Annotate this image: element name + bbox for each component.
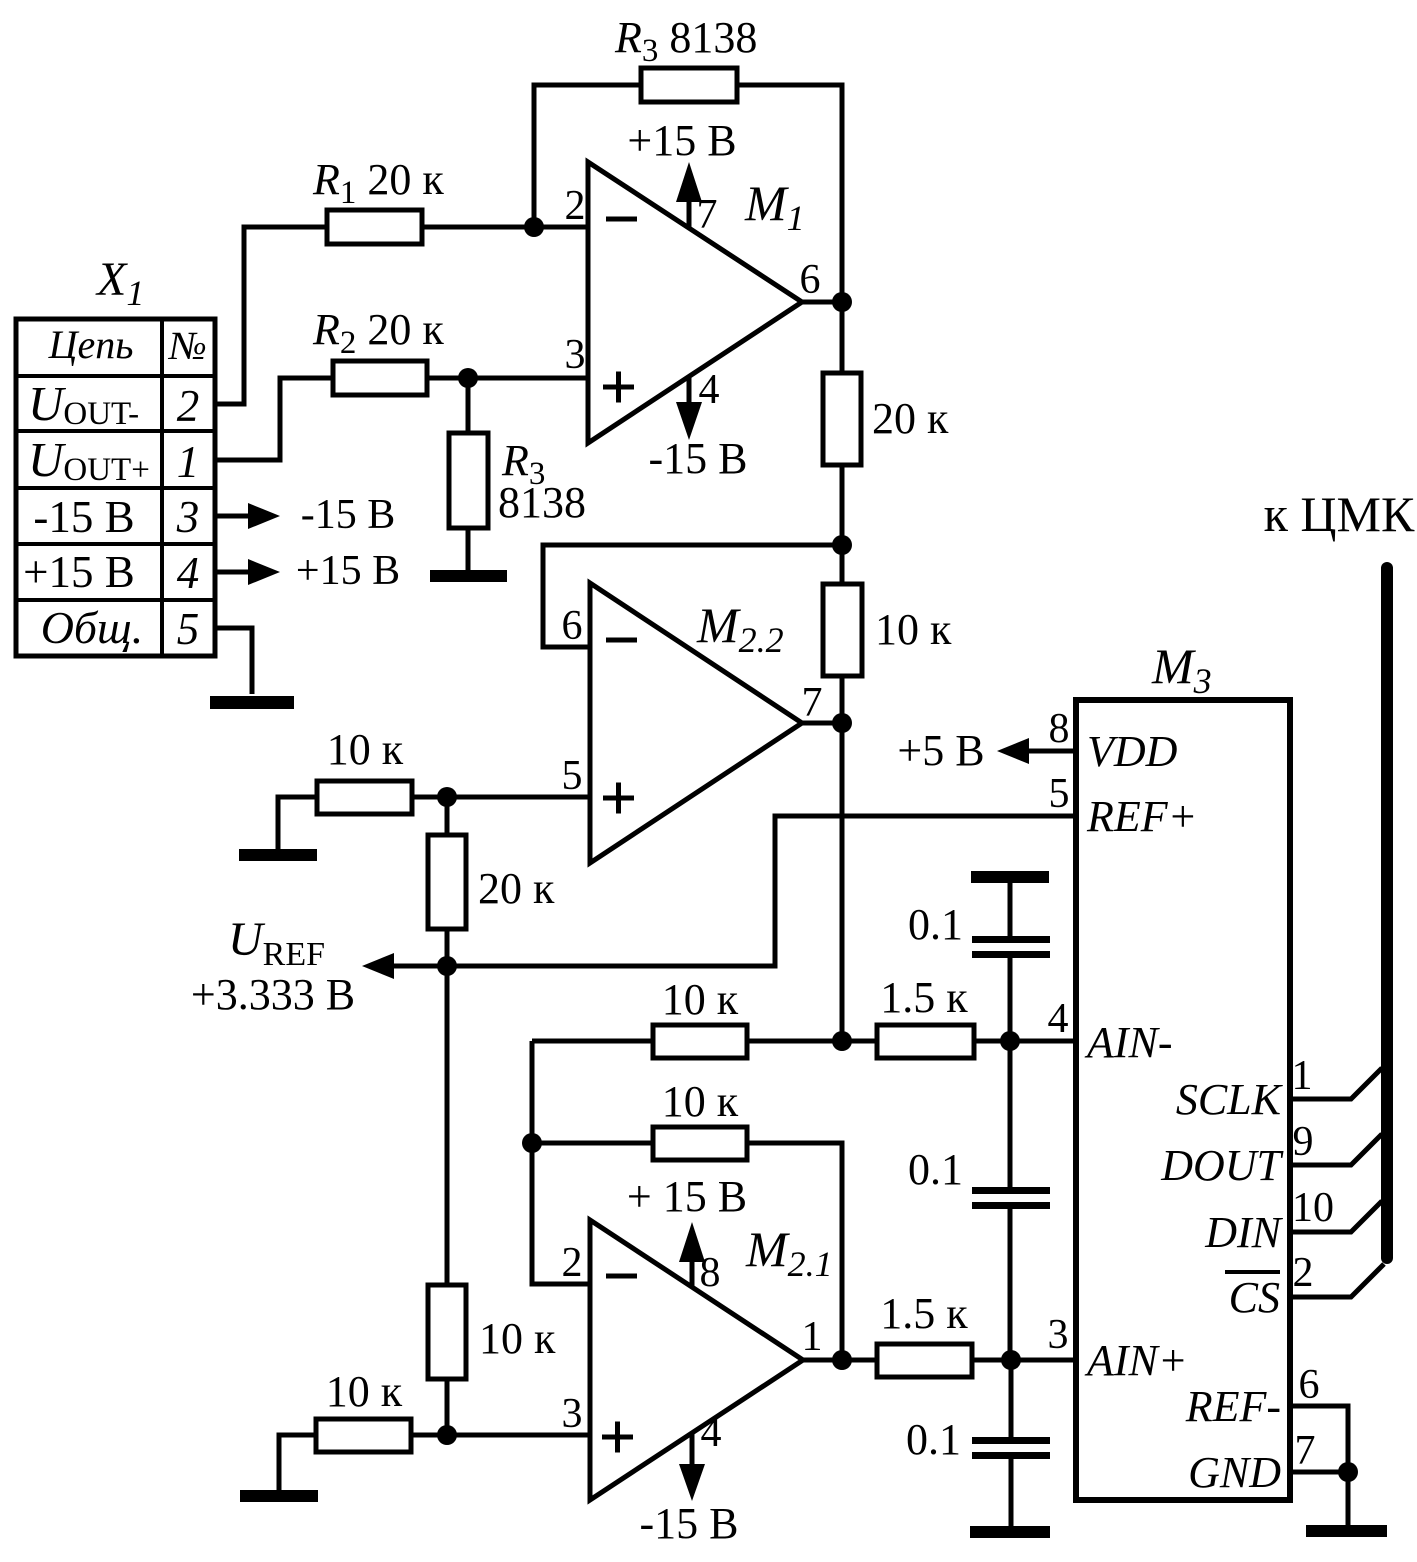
pin number 6 of M2.2 <box>562 603 583 649</box>
pin number 3 of M1 <box>565 332 586 378</box>
X1 row UOUT+ <box>28 432 150 488</box>
wire 10k to ground M2.2 <box>278 797 317 849</box>
pin number 4 AIN- <box>1048 996 1069 1042</box>
label -15 В at M2.1 <box>640 1499 739 1548</box>
svg-text:0.1: 0.1 <box>906 1415 961 1464</box>
svg-text:+5 В: +5 В <box>897 726 984 775</box>
X1 pin 2 number <box>177 381 200 431</box>
node AIN+ capacitor <box>1001 1350 1021 1370</box>
capacitor C3 0.1 <box>972 1437 1050 1459</box>
arrow +15V from X1 pin 4 <box>215 559 280 585</box>
label к ЦМК <box>1264 486 1415 542</box>
pin number 5 REF+ <box>1049 771 1070 817</box>
resistor 20k output divider <box>823 373 861 465</box>
svg-text:VDD: VDD <box>1087 727 1178 776</box>
svg-text:8: 8 <box>700 1250 721 1296</box>
label 1.5 к AIN- <box>880 973 968 1022</box>
wire M2.1 output pin 1 <box>803 1358 842 1363</box>
svg-text:7: 7 <box>1295 1428 1316 1474</box>
wire 10k fb1 to AIN- node <box>747 1039 842 1044</box>
label -15 В at X1 <box>301 492 396 538</box>
svg-text:3: 3 <box>1048 1312 1069 1358</box>
wire AIN+ node to C3 <box>1009 1360 1014 1437</box>
bus to CMK <box>1381 568 1393 1258</box>
wire Uref to REF+ pin <box>447 816 1076 966</box>
op-amp M2.1 <box>590 1220 803 1500</box>
wire R1 to M1 pin 2 <box>422 225 588 230</box>
X1 header № <box>167 323 207 368</box>
wire C1 to AIN- node <box>1008 958 1013 1041</box>
resistor 1.5k AIN+ <box>842 1344 1076 1377</box>
node AIN- <box>832 1031 852 1051</box>
svg-text:5: 5 <box>177 604 200 654</box>
pin CS label with overline <box>1225 1272 1280 1322</box>
label 10 к M2.2 feedback <box>875 605 952 654</box>
label 1.5 к AIN+ <box>880 1289 968 1338</box>
svg-text:10 к: 10 к <box>875 605 952 654</box>
svg-text:2: 2 <box>1293 1250 1314 1296</box>
label +3.333 В <box>191 970 355 1019</box>
svg-text:20 к: 20 к <box>872 394 949 443</box>
X1 row UOUT- <box>28 376 139 432</box>
wire DOUT to bus <box>1290 1134 1382 1165</box>
svg-text:1: 1 <box>802 1314 823 1360</box>
svg-text:+15 В: +15 В <box>23 547 135 597</box>
label +15 В at X1 <box>296 548 400 594</box>
node M2.1 +input junction <box>437 1425 457 1445</box>
node M2.1 output <box>832 1350 852 1370</box>
pin number 2 CS <box>1293 1250 1314 1296</box>
wire GND pin <box>1290 1470 1348 1475</box>
svg-text:0.1: 0.1 <box>908 1145 963 1194</box>
op-amp M1 <box>588 162 802 443</box>
wire M2.2 output pin 7 <box>802 721 842 726</box>
resistor 10k M2.1 +input <box>316 1419 411 1452</box>
wire junction to M2.1 pin 3 <box>412 1433 590 1438</box>
X1 row +15 B <box>23 547 135 597</box>
wire fb junction to 10k fb2 <box>532 1141 653 1146</box>
IC M3 body <box>1076 700 1290 1500</box>
svg-text:1: 1 <box>177 437 200 487</box>
wire AIN- node to C2 <box>1008 1041 1013 1187</box>
svg-text:-15 В: -15 В <box>301 492 396 538</box>
svg-text:к ЦМК: к ЦМК <box>1264 486 1415 542</box>
label M1 <box>744 175 805 238</box>
pin number 4 of M1 <box>699 367 720 413</box>
pin number 7 of M1 <box>697 192 718 238</box>
svg-text:-15 В: -15 В <box>33 492 134 542</box>
wire R2 to M1 pin 3 <box>427 376 588 381</box>
svg-text:R2 20 к: R2 20 к <box>312 305 444 361</box>
svg-text:20 к: 20 к <box>478 864 555 913</box>
pin number 8 of M2.1 <box>700 1250 721 1296</box>
pin DIN label <box>1204 1208 1283 1257</box>
pin DOUT label <box>1160 1141 1284 1190</box>
pin number 3 AIN+ <box>1048 1312 1069 1358</box>
pin number 4 of M2.1 <box>701 1410 722 1456</box>
pin SCLK label <box>1176 1075 1284 1124</box>
pin number 1 SCLK <box>1292 1053 1313 1099</box>
svg-text:DOUT: DOUT <box>1160 1141 1284 1190</box>
wire SCLK to bus <box>1290 1068 1382 1099</box>
ground top of capacitor chain <box>971 871 1049 936</box>
svg-text:8138: 8138 <box>498 478 586 527</box>
resistor R2 <box>333 361 427 395</box>
svg-text:1.5 к: 1.5 к <box>880 973 968 1022</box>
svg-text:10 к: 10 к <box>327 725 404 774</box>
ground M2.1 +input <box>240 1490 318 1502</box>
pin number 9 DOUT <box>1293 1119 1314 1165</box>
resistor 10k feedback upper <box>653 1025 747 1058</box>
power +5V arrow from VDD <box>997 738 1076 764</box>
label 10 к M2.1 +input <box>326 1367 403 1416</box>
svg-text:R3 8138: R3 8138 <box>614 13 757 69</box>
label +15 В at M1 <box>627 116 736 165</box>
svg-text:8: 8 <box>1049 706 1070 752</box>
svg-text:-15 В: -15 В <box>640 1499 739 1548</box>
svg-text:CS: CS <box>1229 1273 1280 1322</box>
svg-text:Цепь: Цепь <box>48 322 134 367</box>
resistor 1.5k AIN- <box>842 1025 1076 1058</box>
label 10 к feedback lower <box>662 1077 739 1126</box>
pin number 6 of M1 <box>800 257 821 303</box>
svg-text:10 к: 10 к <box>326 1367 403 1416</box>
resistor 20k Uref divider <box>428 797 466 966</box>
svg-text:10: 10 <box>1292 1185 1334 1231</box>
svg-text:4: 4 <box>699 367 720 413</box>
wire M2.2 output down to AIN- node <box>840 723 845 1041</box>
pin number 2 of M2.1 <box>562 1240 583 1286</box>
power +15V arrow M2.1 pin 8 <box>679 1222 705 1287</box>
label -15 В at M1 <box>649 434 748 483</box>
connector X1 title <box>95 253 144 313</box>
label R3 8138 <box>614 13 757 69</box>
wire 10k fb2 to M2.1 output <box>747 1143 842 1360</box>
svg-text:AIN-: AIN- <box>1084 1018 1173 1067</box>
svg-text:№: № <box>167 323 207 368</box>
wire junction to R3 shunt <box>466 378 471 433</box>
label R2 20 к <box>312 305 444 361</box>
pin number 10 DIN <box>1292 1185 1334 1231</box>
X1 row -15 B <box>33 492 134 542</box>
wire AIN- node to 10k fb1 <box>532 1039 653 1044</box>
pin number 5 of M2.2 <box>562 753 583 799</box>
capacitor C2 0.1 <box>972 1187 1050 1209</box>
svg-text:5: 5 <box>562 753 583 799</box>
svg-text:3: 3 <box>176 492 200 542</box>
node M1 noninverting input junction <box>458 368 478 388</box>
resistor 10k feedback lower <box>653 1127 747 1160</box>
label R3 8138 shunt <box>498 436 586 527</box>
wire R3 shunt to ground <box>466 528 471 570</box>
label 10 к vertical <box>479 1314 556 1363</box>
power -15V arrow M1 pin 4 <box>676 376 702 440</box>
svg-text:4: 4 <box>177 548 200 598</box>
svg-text:6: 6 <box>1299 1362 1320 1408</box>
svg-text:AIN+: AIN+ <box>1084 1336 1188 1385</box>
wire C3 to ground <box>1009 1459 1014 1526</box>
pin number 3 of M2.1 <box>562 1391 583 1437</box>
label C2 0.1 <box>908 1145 963 1194</box>
pin REF- label <box>1185 1382 1281 1431</box>
node M1 inverting input junction <box>524 217 544 237</box>
node REF- GND junction <box>1338 1462 1358 1482</box>
pin GND label <box>1188 1448 1281 1497</box>
wire DIN to bus <box>1290 1201 1382 1232</box>
ground X1 <box>210 696 294 709</box>
svg-text:+15 В: +15 В <box>627 116 736 165</box>
wire junction to R3 feedback <box>534 85 641 227</box>
wire M2.2 feedback loop <box>543 545 842 647</box>
op-amp M2.2 <box>590 583 802 863</box>
ground bottom of capacitor chain <box>970 1526 1050 1538</box>
svg-text:SCLK: SCLK <box>1176 1075 1284 1124</box>
svg-text:1: 1 <box>1292 1053 1313 1099</box>
node M2.2 feedback <box>832 535 852 555</box>
svg-text:6: 6 <box>800 257 821 303</box>
svg-text:7: 7 <box>697 192 718 238</box>
svg-text:Общ.: Общ. <box>41 602 144 653</box>
pin number 7 GND <box>1295 1428 1316 1474</box>
svg-text:2: 2 <box>565 183 586 229</box>
wire REF- to GND node <box>1290 1406 1348 1472</box>
pin number 7 of M2.2 <box>802 680 823 726</box>
X1 row Общ. <box>41 602 144 653</box>
resistor R3 shunt <box>449 433 488 528</box>
capacitor C1 0.1 <box>972 936 1050 958</box>
wire X1 pin 1 to R2 <box>215 378 333 460</box>
node AIN- capacitor <box>1000 1031 1020 1051</box>
wire X1 pin 5 to ground <box>215 628 252 694</box>
svg-text:4: 4 <box>701 1410 722 1456</box>
label M2.2 <box>696 597 784 660</box>
resistor 10k to M2.2 +input <box>317 781 412 814</box>
pin number 6 REF- <box>1299 1362 1320 1408</box>
ground M2.2 +input <box>239 849 317 861</box>
svg-text:3: 3 <box>565 332 586 378</box>
wire R3 feedback to M1 output <box>737 85 842 302</box>
node M2.2 +input junction <box>437 787 457 807</box>
label C3 0.1 <box>906 1415 961 1464</box>
label 20 к output divider <box>872 394 949 443</box>
wire M1 output to 20k <box>840 302 845 373</box>
pin number 8 VDD <box>1049 706 1070 752</box>
arrow Uref output <box>362 953 447 979</box>
svg-text:3: 3 <box>562 1391 583 1437</box>
arrow -15V from X1 pin 3 <box>215 503 280 529</box>
X1 pin 5 number <box>177 604 200 654</box>
label C1 0.1 <box>908 900 963 949</box>
X1 header Цепь <box>48 322 134 367</box>
label +5 В <box>897 726 984 775</box>
X1 pin 3 number <box>176 492 200 542</box>
power -15V arrow M2.1 pin 4 <box>679 1433 705 1501</box>
ground M3 <box>1306 1525 1387 1537</box>
label UREF <box>228 913 325 973</box>
node Uref <box>437 956 457 976</box>
node M1 output <box>832 292 852 312</box>
wire C2 to AIN+ node <box>1008 1209 1013 1360</box>
svg-text:+ 15 В: + 15 В <box>627 1172 747 1221</box>
wire X1 pin 2 to R1 <box>215 227 327 404</box>
pin number 2 of M1 <box>565 183 586 229</box>
svg-text:9: 9 <box>1293 1119 1314 1165</box>
ground R3 shunt <box>430 570 507 582</box>
svg-text:10 к: 10 к <box>662 1077 739 1126</box>
label 20 к Uref divider <box>478 864 555 913</box>
X1 pin 4 number <box>177 548 200 598</box>
svg-text:-15 В: -15 В <box>649 434 748 483</box>
pin REF+ label <box>1086 792 1197 841</box>
wire Uref node down to 10k <box>445 966 450 1285</box>
label 10 к feedback upper <box>662 975 739 1024</box>
label 10 к M2.2 +input <box>327 725 404 774</box>
svg-text:GND: GND <box>1188 1448 1281 1497</box>
pin VDD label <box>1087 727 1178 776</box>
wire 20k to M2.2 feedback node <box>840 465 845 545</box>
svg-text:7: 7 <box>802 680 823 726</box>
wire M2.1 pin 2 feedback riser <box>532 1041 590 1284</box>
connector X1 table frame <box>16 319 215 656</box>
label + 15 В at M2.1 <box>627 1172 747 1221</box>
node M2.2 output <box>832 713 852 733</box>
svg-text:2: 2 <box>562 1240 583 1286</box>
svg-text:R1 20 к: R1 20 к <box>312 155 444 211</box>
svg-text:5: 5 <box>1049 771 1070 817</box>
X1 pin 1 number <box>177 437 200 487</box>
svg-text:1.5 к: 1.5 к <box>880 1289 968 1338</box>
resistor R1 <box>327 210 422 244</box>
svg-text:2: 2 <box>177 381 200 431</box>
svg-text:10 к: 10 к <box>662 975 739 1024</box>
svg-text:0.1: 0.1 <box>908 900 963 949</box>
label R1 20 к <box>312 155 444 211</box>
svg-text:DIN: DIN <box>1204 1208 1283 1257</box>
label M2.1 <box>745 1221 833 1284</box>
resistor 10k vertical to M2.1 <box>428 1285 466 1435</box>
power +15V arrow M1 pin 7 <box>676 162 702 228</box>
wire GND node to ground <box>1346 1472 1351 1525</box>
svg-text:REF-: REF- <box>1185 1382 1281 1431</box>
svg-text:+3.333 В: +3.333 В <box>191 970 355 1019</box>
resistor R3 feedback <box>641 68 737 102</box>
svg-text:4: 4 <box>1048 996 1069 1042</box>
wire CS to bus <box>1290 1264 1384 1297</box>
svg-text:+15 В: +15 В <box>296 548 400 594</box>
resistor 10k M2.2 feedback <box>823 545 862 724</box>
pin AIN- label <box>1084 1018 1173 1067</box>
svg-text:6: 6 <box>562 603 583 649</box>
wire M1 output pin 6 <box>802 300 842 305</box>
svg-text:REF+: REF+ <box>1086 792 1197 841</box>
wire 10k to M2.2 pin 5 <box>412 795 590 800</box>
svg-text:10 к: 10 к <box>479 1314 556 1363</box>
label M3 <box>1151 638 1212 701</box>
pin AIN+ label <box>1084 1336 1188 1385</box>
pin number 1 of M2.1 <box>802 1314 823 1360</box>
wire 10k to ground M2.1 <box>279 1435 316 1490</box>
node feedback junction M2.1 <box>522 1133 542 1153</box>
